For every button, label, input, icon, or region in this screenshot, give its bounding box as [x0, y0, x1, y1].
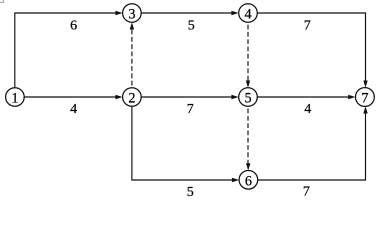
svg-text:2: 2: [128, 91, 135, 107]
wire: edge 2-6 (down then right), weight 5: [132, 106, 239, 182]
stray corner fragment top-left: [0, 0, 3, 2]
svg-text:7: 7: [303, 184, 310, 199]
node 1: [6, 88, 25, 107]
node 3: [123, 4, 142, 23]
svg-text:6: 6: [245, 173, 252, 189]
wire: edge 2-5, weight 7: [141, 95, 238, 99]
node 5: [239, 88, 258, 107]
node 2: [123, 88, 142, 107]
wire: edge 6-7 (right then up), weight 7: [258, 106, 368, 180]
node 7: [356, 88, 375, 107]
svg-text:7: 7: [187, 102, 194, 117]
svg-text:7: 7: [304, 18, 311, 33]
svg-text:4: 4: [304, 102, 311, 117]
node 6: [239, 171, 258, 190]
dashed dummy edge 4-5 (arrow down): [246, 25, 250, 88]
dashed dummy edge 5-6 (arrow down): [246, 109, 250, 171]
svg-text:4: 4: [244, 7, 251, 23]
svg-text:4: 4: [70, 102, 77, 117]
wire: edge 1-3 (elbow up then right), weight 6: [15, 11, 123, 88]
wire: edge 1-2, weight 4: [24, 95, 122, 99]
svg-text:5: 5: [188, 18, 195, 33]
svg-text:1: 1: [11, 91, 18, 107]
wire: edge 5-7, weight 4: [257, 95, 355, 99]
svg-text:5: 5: [187, 185, 194, 200]
svg-text:3: 3: [128, 7, 135, 23]
svg-text:5: 5: [244, 91, 251, 107]
wire: edge 4-7 (right then down), weight 7: [257, 13, 367, 88]
dashed dummy edge 2-3 (arrow up): [130, 22, 134, 85]
wire: edge 3-4, weight 5: [141, 11, 238, 15]
node 4: [239, 4, 258, 23]
svg-text:7: 7: [361, 91, 368, 107]
svg-text:6: 6: [70, 18, 77, 33]
